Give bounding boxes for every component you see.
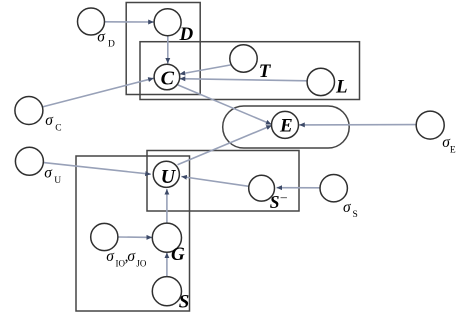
wire sigmaU to U (44, 163, 151, 175)
svg-text:σ: σ (127, 248, 136, 265)
plate C (140, 42, 360, 100)
node S (152, 277, 181, 306)
svg-text:S: S (179, 292, 190, 313)
svg-text:D: D (179, 24, 194, 45)
plate GS (76, 156, 190, 311)
wire Sminus to U (181, 177, 248, 187)
node T (230, 45, 257, 72)
wire sigmaS to Sminus (277, 187, 320, 189)
svg-text:S: S (270, 192, 280, 212)
node sigmaU (15, 147, 43, 175)
plate US (147, 151, 299, 212)
node sigmaC (15, 97, 43, 125)
svg-text:σ: σ (106, 248, 115, 265)
node Sminus (249, 175, 275, 201)
node E (272, 111, 299, 138)
wire L to C (180, 79, 307, 81)
svg-text:E: E (279, 115, 293, 136)
node sigmaD (78, 8, 105, 35)
wire G to U (166, 189, 168, 223)
plate E (capsule) (223, 106, 350, 148)
wire sigmaC to C (43, 78, 154, 107)
wire U to E (178, 125, 272, 164)
svg-text:–: – (280, 190, 288, 204)
wire T to C (180, 65, 231, 74)
node sigmaE (416, 111, 444, 139)
svg-text:σ: σ (44, 164, 53, 181)
wire D to C (167, 36, 169, 64)
plate D (126, 3, 200, 95)
svg-text:σ: σ (343, 199, 352, 216)
node L (307, 68, 334, 95)
node D (154, 9, 181, 36)
wire sigmaD to D (105, 21, 154, 23)
node sigmaS (320, 175, 347, 202)
wire sigmaE to E (299, 124, 416, 126)
wire C to E (178, 85, 272, 125)
node G (152, 223, 181, 252)
svg-text:G: G (171, 244, 185, 265)
svg-text:S: S (353, 210, 358, 220)
node sigmaIOJO (91, 223, 118, 250)
svg-text:C: C (55, 123, 61, 133)
svg-text:σ: σ (45, 112, 54, 129)
svg-text:C: C (161, 68, 175, 90)
svg-text:L: L (335, 77, 348, 98)
svg-text:T: T (259, 61, 272, 82)
node C (154, 64, 180, 90)
svg-text:D: D (108, 40, 115, 50)
node U (153, 161, 179, 187)
svg-text:σ: σ (97, 28, 106, 45)
svg-text:U: U (54, 176, 61, 186)
wire S to G (166, 253, 168, 277)
svg-text:U: U (161, 166, 177, 188)
svg-text:E: E (450, 145, 456, 155)
svg-text:JO: JO (136, 258, 147, 268)
wire sigmaIOJO to G (118, 236, 152, 238)
